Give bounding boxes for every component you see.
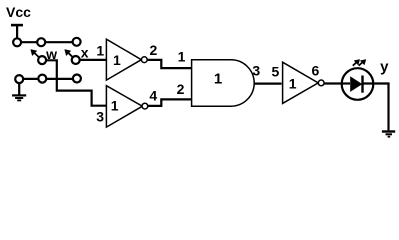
wire left ground stem [18,79,20,95]
wire U2 output to AND gate [148,99,192,106]
switch w lever arrow [31,50,40,58]
svg-text:1: 1 [214,71,222,88]
wire w pole to inverter U2 [42,60,106,105]
svg-text:y: y [380,58,389,75]
LED D1 cathode bar [361,76,363,93]
svg-text:2: 2 [177,81,185,97]
node top rail contact 2 [37,38,45,46]
svg-text:6: 6 [312,63,320,79]
switch x lever arrow [65,50,73,58]
switch w top contact [13,38,21,46]
svg-text:w: w [45,46,57,62]
wire Vcc stem [16,25,18,40]
svg-text:1: 1 [289,76,297,92]
wire U4 output to LED [324,82,350,84]
AND gate U3 [192,60,255,106]
switch x pole [72,56,80,64]
wire LED to ground [363,84,389,131]
svg-text:2: 2 [150,42,158,58]
switch w bottom contact [15,75,23,83]
inverter U2 [106,86,147,127]
inverter U1 [106,39,147,80]
wire top rail [17,41,77,43]
wire AND output to buffer [254,82,281,84]
switch w pole [38,56,46,64]
Vcc supply bar [11,24,23,27]
LED emission arrow 1 [353,60,360,66]
node bottom rail contact 2 [38,75,46,83]
svg-text:3: 3 [252,63,260,79]
LED emission arrow 2 [359,60,366,66]
wire bottom rail [19,78,77,80]
switch x bottom contact [73,75,81,83]
svg-text:5: 5 [272,64,280,80]
inverter U4 [283,62,325,103]
svg-text:1: 1 [96,42,104,58]
LED D1 diode triangle [350,76,362,92]
svg-text:Vcc: Vcc [6,4,31,20]
ground GND2 [382,132,395,137]
svg-text:1: 1 [178,48,186,64]
svg-text:x: x [81,45,89,61]
svg-text:1: 1 [113,52,121,68]
LED D1 circle [342,68,374,100]
switch x top contact [73,38,81,46]
wire U1 output to AND gate [147,60,192,68]
ground GND1 [12,95,26,100]
svg-text:3: 3 [96,109,104,125]
svg-text:1: 1 [111,98,119,114]
svg-text:4: 4 [149,87,157,103]
wire x pole to inverter U1 [76,59,107,61]
